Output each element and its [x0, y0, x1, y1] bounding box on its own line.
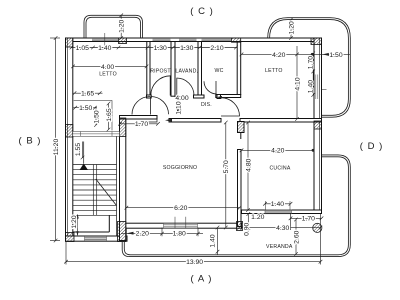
svg-text:1.70: 1.70 — [308, 56, 315, 69]
stair diagonal — [96, 179, 117, 206]
svg-text:( A ): ( A ) — [191, 274, 213, 285]
svg-text:1.70: 1.70 — [135, 121, 148, 128]
window letto1 south band — [73, 132, 120, 137]
corridor north wall seg1 — [147, 95, 152, 98]
dim 13.90 line — [64, 241, 322, 265]
dim 1.20 stair — [76, 214, 79, 235]
door lavand leaf — [176, 78, 178, 96]
dim 1.70 right — [311, 52, 315, 74]
svg-text:1,10: 1,10 — [175, 101, 182, 114]
landing bottom line — [73, 231, 110, 233]
wall W1 letto1-ripost — [147, 42, 150, 97]
windows — [73, 33, 327, 241]
dim 2.20 1.80 line — [121, 228, 203, 237]
svg-text:VERANDA: VERANDA — [266, 244, 293, 250]
door letto2 leaf — [221, 115, 240, 117]
svg-text:1.30: 1.30 — [154, 45, 167, 52]
door lavand arc — [177, 78, 195, 96]
corridor wall arrow — [165, 119, 172, 122]
dim 1.70 landing — [118, 122, 160, 126]
svg-text:2.20: 2.20 — [136, 231, 149, 238]
dim 1.40 right — [311, 72, 315, 97]
svg-text:5.70: 5.70 — [223, 160, 230, 173]
svg-text:13.90: 13.90 — [186, 259, 203, 266]
svg-text:4.10: 4.10 — [294, 77, 301, 90]
stair treads — [73, 165, 117, 216]
door corridor east arc — [151, 97, 169, 115]
svg-text:SOGGIORNO: SOGGIORNO — [163, 165, 197, 171]
window soggiorno south — [164, 217, 198, 229]
svg-text:1.40: 1.40 — [308, 80, 315, 93]
wall W4b cucina west — [238, 150, 242, 227]
svg-text:1.65: 1.65 — [81, 91, 94, 98]
svg-text:DIS.: DIS. — [201, 102, 212, 108]
dim 4.20 letto2 line — [240, 53, 351, 57]
pier right wall — [314, 121, 322, 129]
right wall — [314, 38, 322, 214]
door wc arc — [204, 81, 217, 94]
svg-text:4.00: 4.00 — [101, 64, 114, 71]
hatch piers — [66, 38, 322, 242]
soggiorno south wall — [120, 223, 242, 228]
svg-text:1.65: 1.65 — [106, 108, 113, 121]
column circle — [313, 223, 322, 232]
landing right line — [108, 215, 110, 232]
svg-text:1.30: 1.30 — [180, 45, 193, 52]
wall A letto1 south — [120, 116, 158, 120]
pier top wall at x119 — [119, 38, 127, 44]
window bottom-left entry — [85, 236, 107, 240]
ext line right — [320, 214, 322, 241]
wall A step — [149, 116, 158, 123]
svg-text:1.20: 1.20 — [71, 215, 78, 228]
svg-text:2.60: 2.60 — [293, 230, 300, 243]
left wall — [66, 38, 73, 241]
dimensions — [50, 14, 350, 265]
dim 4.30 — [241, 226, 322, 230]
dim 1.65 h — [73, 91, 103, 95]
dim 1.40 cucina window — [263, 201, 292, 210]
letto2 stub arrow — [216, 96, 226, 99]
stair arrow — [80, 142, 89, 171]
veranda boundary inner — [124, 157, 348, 255]
svg-text:( D ): ( D ) — [360, 141, 383, 152]
window cucina south — [265, 210, 292, 214]
svg-text:11.20: 11.20 — [53, 139, 60, 156]
door ripost arc — [151, 76, 171, 96]
dim 0.90 — [247, 212, 251, 233]
pier left wall bottom — [66, 233, 75, 242]
svg-text:( B ): ( B ) — [19, 136, 42, 147]
balconies — [84, 15, 350, 256]
wall W2 ripost-lavand — [171, 42, 175, 97]
svg-text:WC: WC — [214, 68, 223, 74]
svg-text:0.90: 0.90 — [244, 222, 251, 235]
svg-text:1.05: 1.05 — [76, 45, 89, 52]
door corridor west arc — [132, 97, 150, 115]
svg-text:LAVAND.: LAVAND. — [175, 69, 198, 75]
svg-text:1.55: 1.55 — [75, 143, 82, 156]
dim 11.20 line — [50, 36, 60, 242]
cucina door leaf — [240, 133, 242, 140]
balcony top-right outer — [268, 18, 351, 118]
wall W4a wc-letto2 — [237, 42, 241, 95]
dim 4.00 letto1 — [71, 65, 148, 69]
svg-text:1.40: 1.40 — [209, 234, 216, 247]
svg-text:CUCINA: CUCINA — [269, 165, 290, 171]
svg-text:4.30: 4.30 — [276, 225, 289, 232]
pier top-left corner — [66, 38, 73, 47]
svg-text:LETTO: LETTO — [265, 68, 283, 74]
door corridor leaf — [149, 97, 151, 115]
corridor south wall left — [169, 119, 221, 123]
dim 5.70 — [224, 121, 228, 230]
ext line 1.70 — [290, 214, 292, 231]
dim 4.20 cucina — [240, 149, 315, 153]
dim 2.60 — [294, 218, 298, 256]
wall group — [66, 38, 322, 241]
pier top-right corner — [311, 38, 322, 45]
stair divider — [92, 165, 94, 216]
svg-text:1.50: 1.50 — [329, 52, 342, 59]
svg-text:1.40: 1.40 — [271, 201, 284, 208]
svg-text:4.20: 4.20 — [271, 148, 284, 155]
door ripost leaf — [169, 76, 171, 96]
dim line top row — [70, 46, 238, 50]
svg-text:4.20: 4.20 — [272, 52, 285, 59]
wall W3 lavand-wc — [198, 42, 202, 98]
cucina south wall — [242, 210, 322, 214]
svg-text:( C ): ( C ) — [190, 6, 213, 17]
stairwell east wall — [120, 118, 126, 241]
pier stairwell wall bottom — [118, 222, 126, 242]
dim 1,10 corridor — [175, 97, 182, 114]
svg-text:1.50: 1.50 — [79, 105, 92, 112]
svg-text:6.20: 6.20 — [174, 205, 187, 212]
svg-text:4.00: 4.00 — [175, 95, 188, 102]
bottom-left wall — [66, 236, 128, 241]
doors — [132, 76, 240, 116]
pier soggiorno-cucina wall bottom — [237, 222, 243, 231]
svg-text:1.20: 1.20 — [119, 19, 126, 32]
dim 1.40 veranda left — [216, 226, 220, 255]
dim 6.20 — [125, 206, 242, 210]
top wall — [66, 38, 322, 42]
svg-text:2.10: 2.10 — [210, 45, 223, 52]
svg-text:1.40: 1.40 — [98, 45, 111, 52]
dim 1.50 h — [73, 106, 97, 110]
door wc leaf — [215, 81, 217, 95]
staircase — [73, 101, 117, 216]
dim 1.50 v — [94, 108, 98, 127]
letto2 west stub — [217, 95, 221, 99]
dim 1.55 line — [81, 142, 85, 160]
dim 1.20 balcony left — [119, 14, 123, 40]
veranda boundary outer — [122, 155, 350, 257]
pier cucina west top — [238, 122, 245, 133]
right wall inner line — [319, 38, 321, 214]
svg-text:1.70: 1.70 — [302, 216, 315, 223]
window ripost top — [153, 39, 171, 40]
wall W4b cucina west upper pier — [238, 122, 245, 133]
svg-text:1.50: 1.50 — [93, 110, 100, 123]
room labels — [99, 68, 293, 250]
balcony top-left outer — [84, 15, 143, 38]
pier left wall mid — [66, 125, 73, 138]
svg-text:1.20: 1.20 — [251, 214, 264, 221]
corridor north wall seg2 — [194, 95, 205, 98]
pier stairwell wall top — [120, 118, 126, 137]
svg-text:RIPOST.: RIPOST. — [150, 69, 172, 75]
svg-text:LETTO: LETTO — [99, 72, 117, 78]
dimension texts — [53, 19, 343, 266]
left wall inner line — [66, 38, 68, 241]
window wc top — [202, 39, 232, 40]
nook L line — [74, 101, 112, 131]
dim 4.80 — [246, 121, 250, 212]
dim 4.10 — [295, 46, 299, 121]
window letto2 right wall — [316, 75, 327, 100]
balcony top-left inner — [86, 17, 141, 38]
window lavand top — [179, 39, 197, 40]
svg-text:4.80: 4.80 — [245, 158, 252, 171]
stair right edge — [116, 137, 118, 237]
svg-text:1.20: 1.20 — [288, 21, 295, 34]
window letto1 top — [92, 33, 119, 47]
corridor south wall right / letto2 south — [240, 119, 322, 123]
pier top wall at x232 — [232, 38, 241, 42]
dim 1.20 balcony right — [289, 18, 293, 40]
dim 1.65 v — [107, 102, 111, 132]
wc south wall — [216, 95, 241, 98]
dim 1.70 veranda — [289, 217, 324, 221]
door letto2 arc — [221, 98, 240, 117]
balcony top-right inner — [270, 20, 349, 116]
svg-text:1.80: 1.80 — [173, 231, 186, 238]
